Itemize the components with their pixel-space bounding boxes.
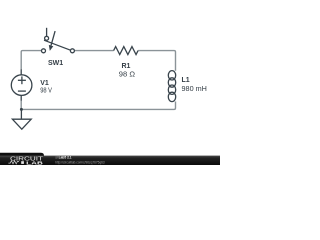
svg-text:L1: L1 xyxy=(182,77,190,84)
svg-text:http://circuitlab.com/c/96zq76: http://circuitlab.com/c/96zq7675q63 xyxy=(55,160,104,164)
resistor R1 xyxy=(114,47,138,55)
wire top-left from corner to switch left terminal xyxy=(21,51,41,70)
wire from inductor bottom to bottom-right corner to ground junction xyxy=(21,102,175,110)
logo square xyxy=(21,161,24,164)
svg-text:SW1: SW1 xyxy=(48,60,63,67)
ground xyxy=(12,109,31,129)
wire from V1 bottom to ground junction xyxy=(20,100,22,109)
wire from resistor R1 to top-right corner down to inductor xyxy=(138,51,175,71)
wire from switch right terminal to resistor R1 xyxy=(74,50,113,52)
svg-text:98 Ω: 98 Ω xyxy=(119,72,135,79)
svg-text:R1: R1 xyxy=(122,63,131,70)
watermark logo box xyxy=(0,153,44,165)
svg-text:980 mH: 980 mH xyxy=(182,86,207,93)
svg-text:Lab5 2.1: Lab5 2.1 xyxy=(59,156,72,160)
switch SW1 xyxy=(42,28,75,53)
logo resistor zigzag xyxy=(8,161,19,164)
svg-text:LAB: LAB xyxy=(26,160,44,165)
svg-text:V1: V1 xyxy=(40,80,49,87)
watermark footer bar xyxy=(0,156,220,165)
svg-text:98 V: 98 V xyxy=(40,88,52,95)
inductor L1 xyxy=(168,71,175,102)
node junction dot xyxy=(20,108,23,111)
voltage source V1 xyxy=(11,69,32,100)
